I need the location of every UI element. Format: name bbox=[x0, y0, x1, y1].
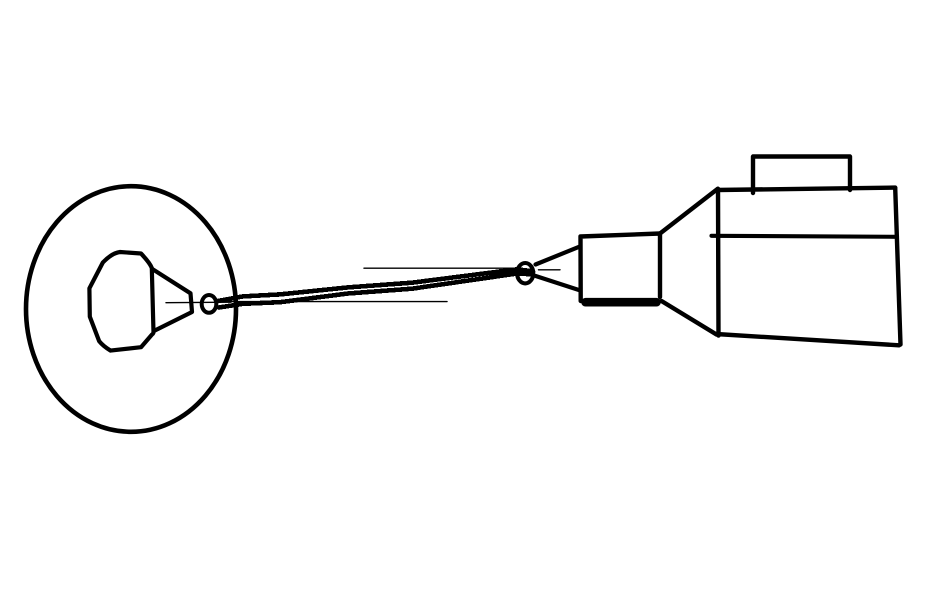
thin line above rod bbox=[364, 267, 514, 269]
body divider line bbox=[712, 236, 898, 237]
top handle rectangle bbox=[753, 157, 850, 194]
lens box (left, top, right edges) bbox=[581, 234, 661, 302]
body front vertical edge bbox=[716, 189, 721, 336]
blob (inner body) bbox=[89, 252, 153, 351]
rod lower line bbox=[219, 274, 533, 308]
ellipse (large dish outline) bbox=[26, 186, 236, 432]
horn bottom diagonal bbox=[662, 301, 717, 335]
thin axis line through nozzle tip bbox=[166, 301, 231, 304]
rod upper line bbox=[218, 269, 533, 301]
node B (right pivot ring) bbox=[517, 263, 533, 283]
cone (nozzle on blob) bbox=[153, 269, 192, 330]
node A (left pivot ring) bbox=[202, 295, 217, 313]
fan line lower (node B to lens box) bbox=[536, 276, 580, 290]
fan line upper (node B to lens box) bbox=[536, 246, 581, 264]
body bottom edge bbox=[716, 334, 899, 345]
body top edge bbox=[717, 188, 895, 190]
body right edge bbox=[895, 188, 900, 345]
horn top diagonal bbox=[660, 189, 718, 234]
thin line below rod bbox=[230, 301, 447, 303]
thin tick right of node B bbox=[539, 269, 561, 271]
lens box thick bottom bar bbox=[586, 298, 657, 307]
